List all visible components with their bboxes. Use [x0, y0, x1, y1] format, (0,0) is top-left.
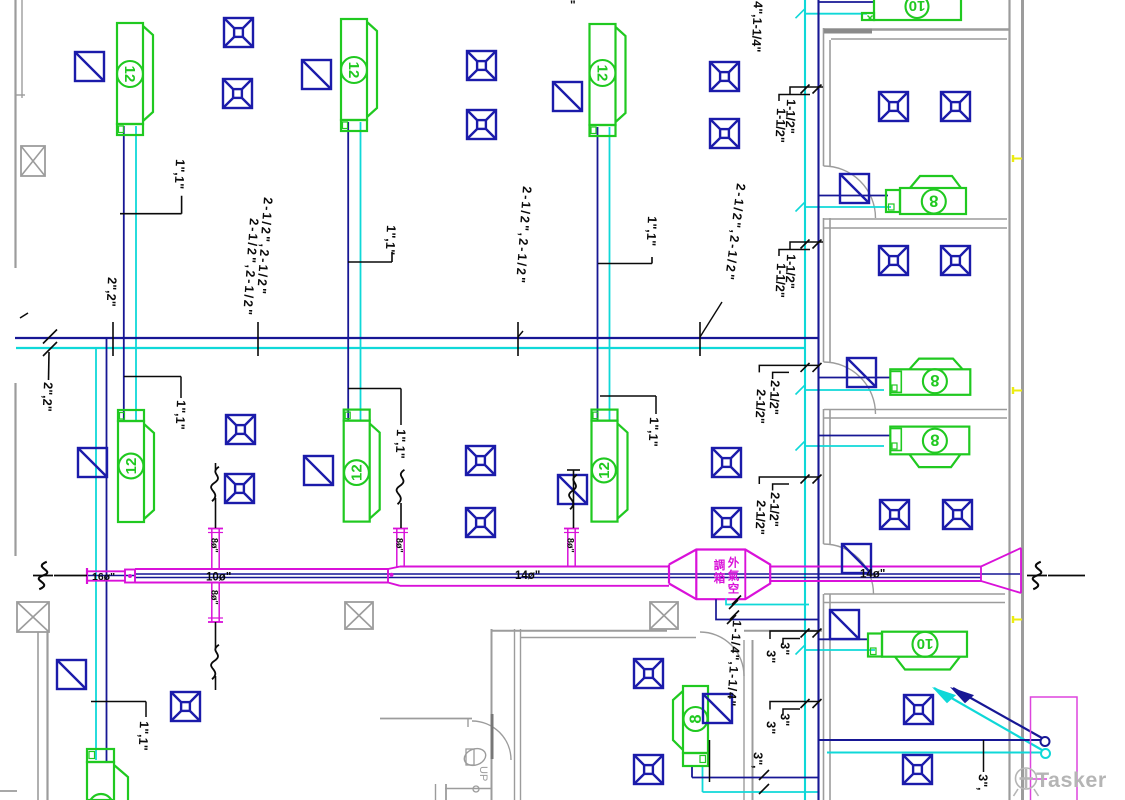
svg-text:8: 8 — [929, 192, 938, 210]
svg-text:4",1-1/4": 4",1-1/4" — [749, 1, 765, 53]
svg-text:10ø": 10ø" — [206, 572, 231, 584]
svg-text:2",2": 2",2" — [104, 277, 119, 307]
svg-text:12: 12 — [345, 62, 362, 79]
svg-text:8ø": 8ø" — [566, 538, 576, 553]
svg-text:3": 3" — [777, 642, 792, 656]
svg-text:1",1": 1",1" — [646, 417, 661, 447]
svg-text:3": 3" — [763, 650, 778, 664]
svg-text:12: 12 — [594, 65, 611, 82]
svg-text:2-1/2": 2-1/2" — [752, 500, 768, 535]
svg-text:2",2": 2",2" — [40, 382, 55, 412]
svg-text:1",1": 1",1" — [173, 400, 188, 430]
svg-text:1-1/2": 1-1/2" — [772, 263, 788, 298]
svg-text:12: 12 — [349, 464, 366, 481]
svg-text:3": 3" — [763, 721, 778, 735]
svg-text:2-1/2": 2-1/2" — [752, 389, 768, 424]
svg-text:2-1/2": 2-1/2" — [766, 492, 782, 527]
svg-text:8ø": 8ø" — [210, 538, 220, 553]
svg-text:10: 10 — [909, 0, 926, 14]
svg-text:8ø": 8ø" — [210, 590, 220, 605]
svg-text:3",: 3", — [750, 752, 765, 769]
svg-text:14ø": 14ø" — [515, 570, 540, 582]
svg-text:UP: UP — [477, 766, 489, 781]
svg-text:調: 調 — [714, 558, 726, 572]
svg-text:16ø": 16ø" — [92, 571, 115, 583]
svg-text:14ø": 14ø" — [860, 569, 885, 581]
svg-text:1",1": 1",1" — [136, 721, 151, 751]
svg-text:3",: 3", — [975, 774, 990, 791]
svg-text:12: 12 — [123, 458, 140, 475]
svg-text:8ø": 8ø" — [395, 538, 405, 553]
svg-text:8: 8 — [930, 431, 939, 449]
svg-text:12: 12 — [121, 66, 138, 83]
svg-text:8: 8 — [930, 371, 939, 389]
svg-text:12: 12 — [596, 462, 613, 479]
svg-text:氣: 氣 — [728, 569, 740, 583]
svg-text:10: 10 — [917, 635, 934, 652]
svg-text:3": 3" — [777, 713, 792, 727]
svg-text:箱: 箱 — [714, 571, 726, 585]
svg-text:": " — [570, 0, 576, 12]
svg-text:空: 空 — [728, 582, 740, 596]
svg-text:1",1": 1",1" — [393, 429, 408, 459]
svg-text:外: 外 — [727, 556, 740, 570]
svg-text:1",1": 1",1" — [172, 159, 188, 190]
svg-text:1-1/2": 1-1/2" — [772, 108, 788, 143]
svg-text:1",1": 1",1" — [644, 216, 660, 247]
svg-text:Tasker: Tasker — [1036, 768, 1107, 792]
svg-text:2-1/2": 2-1/2" — [766, 380, 782, 415]
svg-text:1",1": 1",1" — [383, 225, 399, 256]
